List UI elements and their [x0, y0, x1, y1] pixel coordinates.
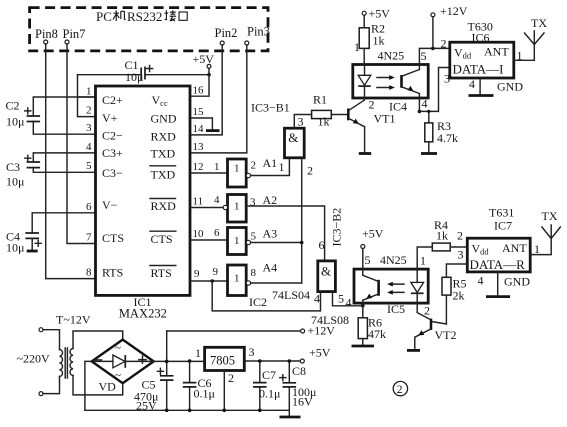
svg-text:~220V: ~220V	[17, 352, 50, 366]
svg-text:4.7k: 4.7k	[437, 131, 458, 145]
svg-text:CTS: CTS	[102, 231, 124, 245]
svg-text:TX: TX	[531, 16, 547, 30]
svg-text:DATA—R: DATA—R	[470, 257, 526, 272]
svg-text:0.1μ: 0.1μ	[194, 387, 215, 401]
svg-text:C2−: C2−	[102, 129, 123, 143]
svg-text:C2: C2	[6, 99, 20, 113]
svg-text:5: 5	[251, 231, 257, 243]
svg-text:+12V: +12V	[440, 4, 468, 18]
svg-text:Pin8: Pin8	[35, 27, 58, 41]
svg-text:C3: C3	[6, 160, 20, 174]
svg-text:T~12V: T~12V	[56, 313, 91, 327]
svg-text:2: 2	[457, 229, 463, 243]
svg-text:A2: A2	[263, 193, 278, 207]
svg-text:2: 2	[307, 164, 313, 178]
svg-text:2: 2	[424, 304, 430, 318]
svg-text:4: 4	[86, 141, 92, 153]
svg-text:Pin2: Pin2	[215, 26, 238, 40]
svg-text:ANT: ANT	[484, 45, 509, 59]
svg-text:DATA—I: DATA—I	[453, 62, 504, 77]
svg-text:47k: 47k	[368, 327, 386, 341]
svg-text:IC5: IC5	[387, 302, 405, 316]
svg-text:10μ: 10μ	[6, 115, 24, 129]
svg-text:3: 3	[444, 72, 450, 86]
svg-text:RXD: RXD	[151, 199, 177, 213]
svg-text:4: 4	[314, 292, 320, 306]
svg-text:1: 1	[354, 40, 360, 54]
svg-text:IC7: IC7	[494, 219, 512, 233]
svg-text:5: 5	[365, 253, 371, 267]
svg-text:ANT: ANT	[502, 241, 527, 255]
svg-text:2: 2	[369, 98, 375, 112]
svg-text:RTS: RTS	[151, 266, 172, 280]
svg-text:5: 5	[421, 49, 427, 63]
svg-text:12: 12	[193, 161, 204, 173]
svg-text:IC2: IC2	[249, 295, 267, 309]
svg-text:1: 1	[234, 201, 240, 213]
svg-text:+5V: +5V	[309, 346, 331, 360]
svg-text:1: 1	[86, 86, 92, 98]
svg-text:GND: GND	[151, 112, 177, 126]
svg-text:VT2: VT2	[435, 328, 457, 342]
svg-text:4: 4	[478, 274, 484, 288]
svg-text:MAX232: MAX232	[119, 307, 167, 321]
svg-text:8: 8	[251, 267, 257, 279]
svg-text:2: 2	[441, 37, 447, 51]
svg-text:1: 1	[517, 49, 523, 63]
svg-text:2k: 2k	[453, 289, 465, 303]
svg-text:Pin3: Pin3	[247, 25, 270, 39]
svg-text:C2+: C2+	[102, 93, 123, 107]
svg-text:2: 2	[86, 105, 92, 117]
svg-text:TXD: TXD	[151, 168, 176, 182]
svg-text:16: 16	[193, 85, 205, 97]
svg-text:6: 6	[214, 227, 220, 239]
svg-text:TXD: TXD	[151, 147, 176, 161]
svg-text:3: 3	[298, 115, 304, 129]
svg-text:IC6: IC6	[472, 31, 490, 45]
svg-text:25V: 25V	[136, 399, 157, 413]
svg-text:3: 3	[458, 248, 464, 262]
svg-text:1: 1	[214, 161, 220, 173]
svg-text:7: 7	[86, 232, 92, 244]
svg-text:4N25: 4N25	[380, 253, 407, 267]
svg-text:~: ~	[115, 342, 121, 354]
svg-text:~: ~	[115, 370, 121, 382]
svg-text:10: 10	[193, 228, 205, 240]
svg-text:IC4: IC4	[389, 100, 407, 114]
svg-text:1: 1	[234, 273, 240, 285]
svg-text:74LS04: 74LS04	[272, 288, 310, 302]
svg-text:4: 4	[214, 194, 220, 206]
svg-text:9: 9	[213, 266, 219, 278]
svg-text:A4: A4	[263, 261, 278, 275]
svg-text:1k: 1k	[373, 34, 385, 48]
svg-text:1k: 1k	[318, 115, 330, 129]
svg-text:GND: GND	[497, 80, 523, 94]
svg-text:1: 1	[195, 346, 201, 360]
svg-text:T631: T631	[489, 206, 514, 220]
svg-text:10μ: 10μ	[6, 241, 24, 255]
svg-text:CTS: CTS	[151, 232, 173, 246]
svg-text:V−: V−	[102, 198, 118, 212]
svg-text:1: 1	[234, 235, 240, 247]
svg-text:5: 5	[338, 292, 344, 306]
svg-text:RXD: RXD	[151, 130, 177, 144]
svg-text:0.1μ: 0.1μ	[259, 387, 280, 401]
svg-text:8: 8	[86, 267, 92, 279]
svg-text:IC3−B1: IC3−B1	[251, 101, 290, 115]
svg-text:11: 11	[193, 196, 204, 208]
svg-text:1: 1	[534, 242, 540, 256]
svg-text:14: 14	[193, 123, 205, 135]
svg-text:1: 1	[234, 163, 240, 175]
svg-text:Pin7: Pin7	[63, 27, 86, 41]
svg-text:3: 3	[249, 345, 255, 359]
svg-text:2: 2	[397, 384, 403, 396]
svg-text:RTS: RTS	[102, 266, 123, 280]
svg-text:+5V: +5V	[369, 7, 391, 21]
svg-text:7805: 7805	[210, 354, 235, 368]
svg-text:+5V: +5V	[362, 227, 384, 241]
svg-text:2: 2	[228, 371, 234, 385]
svg-text:3: 3	[86, 122, 92, 134]
svg-text:15: 15	[193, 106, 205, 118]
svg-text:1: 1	[279, 160, 285, 174]
svg-text:TX: TX	[542, 209, 558, 223]
svg-text:6: 6	[86, 201, 92, 213]
svg-text:6: 6	[319, 238, 325, 252]
svg-text:3: 3	[250, 197, 256, 209]
svg-text:+12V: +12V	[308, 324, 336, 338]
svg-text:13: 13	[193, 141, 205, 153]
svg-text:VT1: VT1	[374, 112, 396, 126]
svg-text:2: 2	[251, 160, 257, 172]
svg-text:4: 4	[422, 97, 428, 111]
svg-text:IC3−B2: IC3−B2	[330, 208, 344, 247]
svg-text:5: 5	[86, 160, 92, 172]
svg-text:GND: GND	[504, 275, 530, 289]
svg-text:10μ: 10μ	[6, 175, 24, 189]
svg-text:4: 4	[346, 296, 352, 310]
svg-text:PC: PC	[96, 9, 112, 24]
svg-text:4N25: 4N25	[378, 49, 405, 63]
svg-text:10μ: 10μ	[125, 70, 143, 84]
svg-text:C8: C8	[292, 364, 306, 378]
svg-text:&: &	[321, 264, 331, 279]
svg-text:1k: 1k	[436, 229, 448, 243]
svg-text:C3+: C3+	[102, 146, 123, 160]
svg-text:A1: A1	[263, 156, 278, 170]
svg-text:R1: R1	[313, 93, 327, 107]
svg-text:C3−: C3−	[102, 166, 123, 180]
svg-text:RS232: RS232	[127, 9, 162, 24]
svg-text:4: 4	[469, 77, 475, 91]
svg-text:C7: C7	[262, 368, 276, 382]
svg-text:&: &	[288, 130, 298, 145]
svg-text:9: 9	[194, 268, 200, 280]
svg-text:VD: VD	[99, 380, 117, 394]
svg-text:1: 1	[420, 254, 426, 268]
svg-text:+5V: +5V	[193, 52, 215, 66]
svg-text:16V: 16V	[292, 395, 313, 409]
svg-text:V+: V+	[102, 111, 118, 125]
svg-text:A3: A3	[263, 227, 278, 241]
